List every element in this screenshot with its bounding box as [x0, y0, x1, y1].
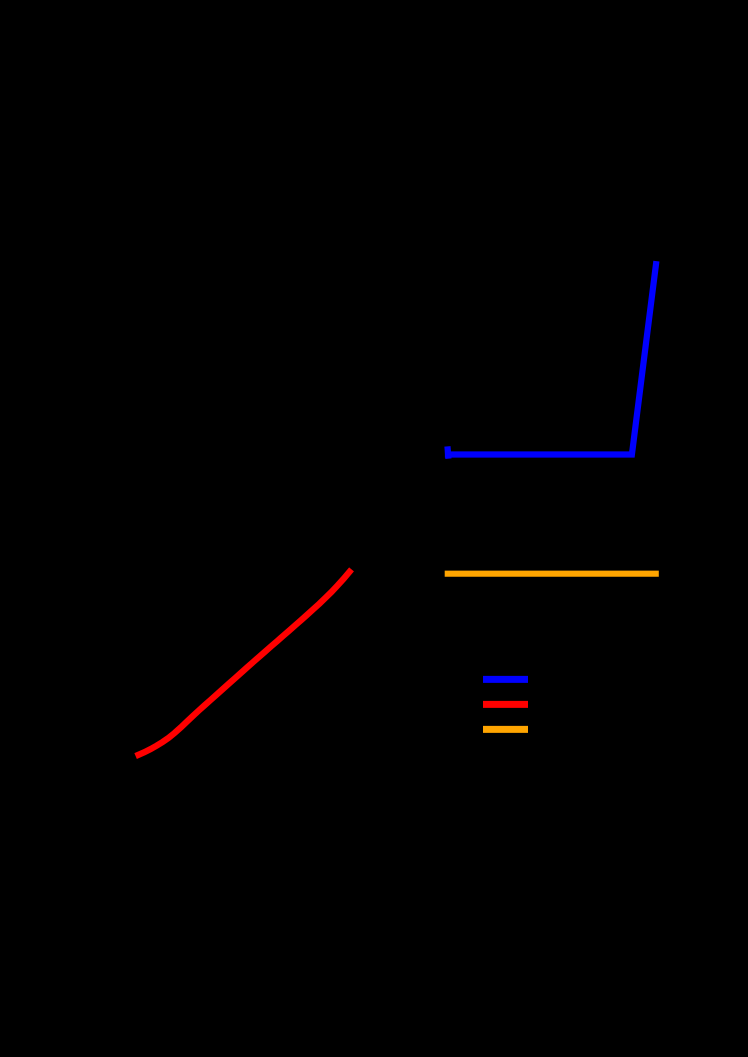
orange horizontal line [448, 571, 656, 577]
legend swatch orange [487, 726, 525, 733]
legend swatch blue [487, 676, 525, 683]
red curve (rising, steepening) [139, 572, 350, 755]
blue curve: plateau then steep rise [448, 264, 656, 454]
legend swatch red [487, 701, 525, 708]
blue curve start stub [445, 450, 452, 456]
